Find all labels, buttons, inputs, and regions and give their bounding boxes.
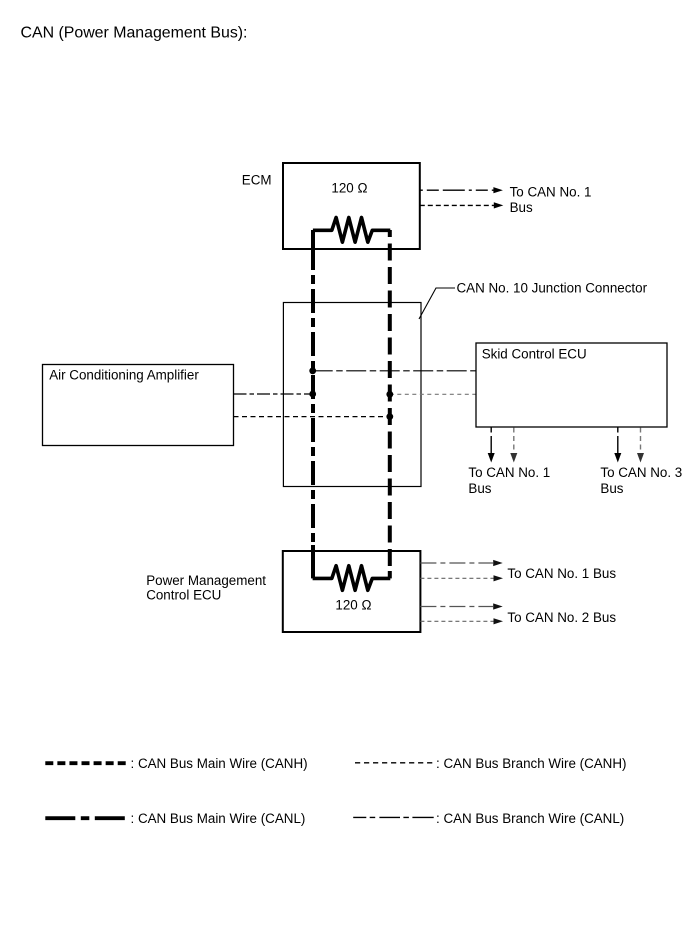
svg-text:: CAN Bus Main Wire (CANH): : CAN Bus Main Wire (CANH) bbox=[131, 756, 308, 771]
svg-text:: CAN Bus Main Wire (CANL): : CAN Bus Main Wire (CANL) bbox=[131, 811, 306, 826]
Skid Control ECU box bbox=[476, 343, 667, 427]
ECM box U1 bbox=[283, 163, 420, 249]
svg-text:Power Management: Power Management bbox=[146, 573, 266, 588]
legend sample: CAN Bus Branch Wire CANL (thin dash-dot) bbox=[353, 816, 434, 818]
svg-text:To CAN No. 1 Bus: To CAN No. 1 Bus bbox=[507, 566, 616, 581]
svg-text:CAN (Power Management Bus):: CAN (Power Management Bus): bbox=[21, 25, 248, 42]
Air Conditioning Amplifier box bbox=[43, 365, 234, 446]
svg-text:Skid Control ECU: Skid Control ECU bbox=[482, 347, 587, 362]
wire CANH main (thick dashed vertical, right) bbox=[388, 230, 392, 572]
Power Management Control ECU box bbox=[283, 551, 421, 632]
svg-text:To CAN No. 1: To CAN No. 1 bbox=[468, 465, 550, 480]
PM branch wire CANH (dashed) to CAN No. 2 bbox=[420, 620, 493, 622]
svg-text:Bus: Bus bbox=[510, 200, 533, 215]
wire Skid Control ECU CANH branch (dashed, gray) bbox=[390, 393, 476, 395]
arrowhead bbox=[494, 202, 504, 208]
legend sample: CAN Bus Branch Wire CANH (thin dashed) bbox=[355, 762, 432, 764]
leader line to junction connector label bbox=[419, 288, 455, 319]
svg-text:: CAN Bus Branch Wire (CANH): : CAN Bus Branch Wire (CANH) bbox=[436, 756, 626, 771]
skid arrow 1 (CANL solid/dash-dot, down) bbox=[490, 428, 492, 454]
wire CANL main (thick dash-dot vertical, left) bbox=[311, 230, 315, 270]
ECM branch wire CANL (dash-dot to To CAN No. 1 Bus) bbox=[420, 189, 494, 191]
svg-text:ECM: ECM bbox=[242, 173, 272, 188]
skid arrow 4 (CANH dashed, down) bbox=[640, 428, 642, 454]
wire A/C amplifier CANH branch (dashed) bbox=[234, 416, 390, 418]
resistor R2 (120 ohm inside PM ECU) bbox=[313, 566, 391, 591]
svg-text:120 Ω: 120 Ω bbox=[331, 180, 367, 195]
svg-text:CAN No. 10 Junction Connector: CAN No. 10 Junction Connector bbox=[457, 280, 648, 295]
PM branch wire CANH (dashed) to CAN No. 1 bbox=[420, 577, 493, 579]
junction node dot (CANH / A/C branch) bbox=[386, 413, 393, 420]
skid arrow 3 (CANL solid/dash-dot, down) bbox=[617, 428, 619, 454]
svg-text:120 Ω: 120 Ω bbox=[335, 597, 371, 612]
svg-text:To CAN No. 2 Bus: To CAN No. 2 Bus bbox=[507, 610, 616, 625]
svg-text:Control ECU: Control ECU bbox=[146, 587, 221, 602]
arrowhead bbox=[493, 187, 503, 193]
junction node dot (CANL / skid branch) bbox=[309, 367, 316, 374]
legend sample: CAN Bus Main Wire CANL (thick dash-dot) bbox=[45, 816, 125, 820]
wire Skid Control ECU CANL branch (dash-dot) bbox=[313, 370, 476, 372]
junction node dot (CANH / skid branch) bbox=[386, 391, 393, 398]
svg-text:Air Conditioning Amplifier: Air Conditioning Amplifier bbox=[49, 368, 199, 383]
svg-text:Bus: Bus bbox=[600, 481, 623, 496]
CAN No. 10 Junction Connector box J1 bbox=[283, 303, 421, 487]
PM branch wire CANL (dash-dot) to CAN No. 1 bbox=[420, 562, 493, 564]
wire A/C amplifier CANL branch (dash-dot) bbox=[234, 393, 313, 395]
resistor R1 (120 ohm inside ECM) bbox=[313, 218, 390, 243]
legend sample: CAN Bus Main Wire CANH (thick dashed) bbox=[45, 761, 125, 765]
junction node dot (CANL / A/C branch) bbox=[309, 391, 316, 398]
svg-text:Bus: Bus bbox=[468, 481, 491, 496]
svg-text:To CAN No. 3: To CAN No. 3 bbox=[600, 465, 682, 480]
ECM branch wire CANH (dashed to To CAN No. 1 Bus) bbox=[420, 204, 494, 206]
PM branch wire CANL (dash-dot) to CAN No. 2 bbox=[420, 606, 493, 608]
svg-text:To CAN No. 1: To CAN No. 1 bbox=[510, 185, 592, 200]
svg-text:: CAN Bus Branch Wire (CANL): : CAN Bus Branch Wire (CANL) bbox=[436, 811, 624, 826]
skid arrow 2 (CANH dashed, down) bbox=[513, 428, 515, 454]
